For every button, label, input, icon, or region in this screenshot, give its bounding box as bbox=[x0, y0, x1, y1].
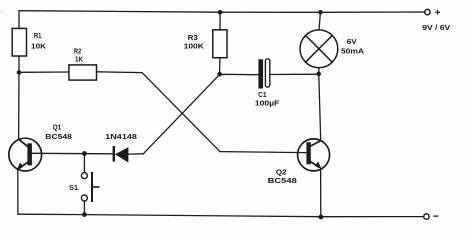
node S1-base junction dot bbox=[82, 151, 87, 156]
wire R3 top lead bbox=[219, 12, 221, 30]
svg-text:6V: 6V bbox=[347, 37, 357, 46]
wire Q1 base to diode cathode bbox=[32, 152, 113, 155]
node S1-rail junction dot bbox=[82, 212, 87, 217]
svg-text:1N4148: 1N4148 bbox=[105, 132, 137, 141]
svg-text:100K: 100K bbox=[184, 42, 205, 51]
wire lamp bottom to node C bbox=[318, 68, 320, 75]
svg-text:10K: 10K bbox=[31, 42, 47, 51]
wire S1 top lead bbox=[83, 154, 85, 173]
node A junction dot bbox=[17, 70, 22, 75]
svg-text:BC548: BC548 bbox=[268, 178, 297, 185]
svg-text:50mA: 50mA bbox=[341, 47, 365, 56]
diode D1 1N4148 bbox=[113, 146, 129, 163]
wire diagonal node B to diode bbox=[144, 74, 220, 153]
wire R3 bottom lead to node B bbox=[219, 57, 221, 74]
wire to Q2 base bbox=[220, 152, 307, 153]
wire node A down to Q1 collector bbox=[18, 73, 20, 140]
resistor R2 body bbox=[69, 65, 97, 80]
node lamp-top junction dot bbox=[318, 10, 323, 15]
resistor R3 body bbox=[213, 30, 227, 58]
terminal - bbox=[424, 214, 429, 219]
transistor Q2 bbox=[298, 139, 330, 171]
svg-text:Q2: Q2 bbox=[276, 169, 287, 176]
switch S1 bbox=[81, 172, 99, 202]
scan speck bbox=[1, 11, 3, 13]
lamp LP1 bbox=[300, 30, 338, 68]
svg-text:9V / 6V: 9V / 6V bbox=[422, 25, 450, 32]
terminal + (9V/6V) bbox=[425, 9, 430, 14]
wire R1 top lead bbox=[18, 11, 20, 29]
svg-text:100µF: 100µF bbox=[255, 100, 280, 107]
svg-text:BC548: BC548 bbox=[45, 134, 72, 141]
node B junction dot bbox=[217, 72, 222, 77]
wire lamp top lead bbox=[319, 12, 320, 30]
minus sign bbox=[433, 215, 438, 217]
svg-text:Q1: Q1 bbox=[53, 125, 62, 132]
transistor Q1 bbox=[9, 138, 42, 171]
wire bottom rail (-) bbox=[18, 214, 424, 217]
wire node B to C1 left bbox=[220, 73, 259, 75]
wire top rail (+) bbox=[19, 11, 425, 13]
wire Q1 emitter to bottom rail bbox=[17, 169, 19, 214]
node Q2-emitter-rail junction dot bbox=[319, 215, 324, 220]
wire R2 right lead bbox=[97, 71, 143, 74]
wire diagonal R2 to Q2 base bbox=[142, 73, 220, 152]
capacitor C1 bbox=[258, 59, 269, 89]
node R3-top junction dot bbox=[218, 10, 223, 15]
wire Q2 emitter to bottom rail bbox=[320, 170, 322, 218]
wire R1 bottom to node A bbox=[18, 56, 20, 73]
wire node C down to Q2 collector bbox=[319, 74, 321, 140]
resistor R1 body bbox=[12, 28, 26, 56]
svg-text:S1: S1 bbox=[69, 185, 78, 192]
wire diode anode to diagonal bbox=[128, 153, 143, 155]
svg-text:C1: C1 bbox=[258, 92, 267, 99]
wire node A to R2 left bbox=[19, 71, 69, 73]
wire S1 bottom lead bbox=[83, 201, 85, 214]
wire C1 right to lamp node bbox=[270, 73, 319, 75]
plus sign bbox=[435, 10, 440, 15]
svg-text:1K: 1K bbox=[75, 55, 83, 64]
svg-text:R1: R1 bbox=[34, 31, 42, 40]
node C junction dot bbox=[316, 72, 321, 77]
